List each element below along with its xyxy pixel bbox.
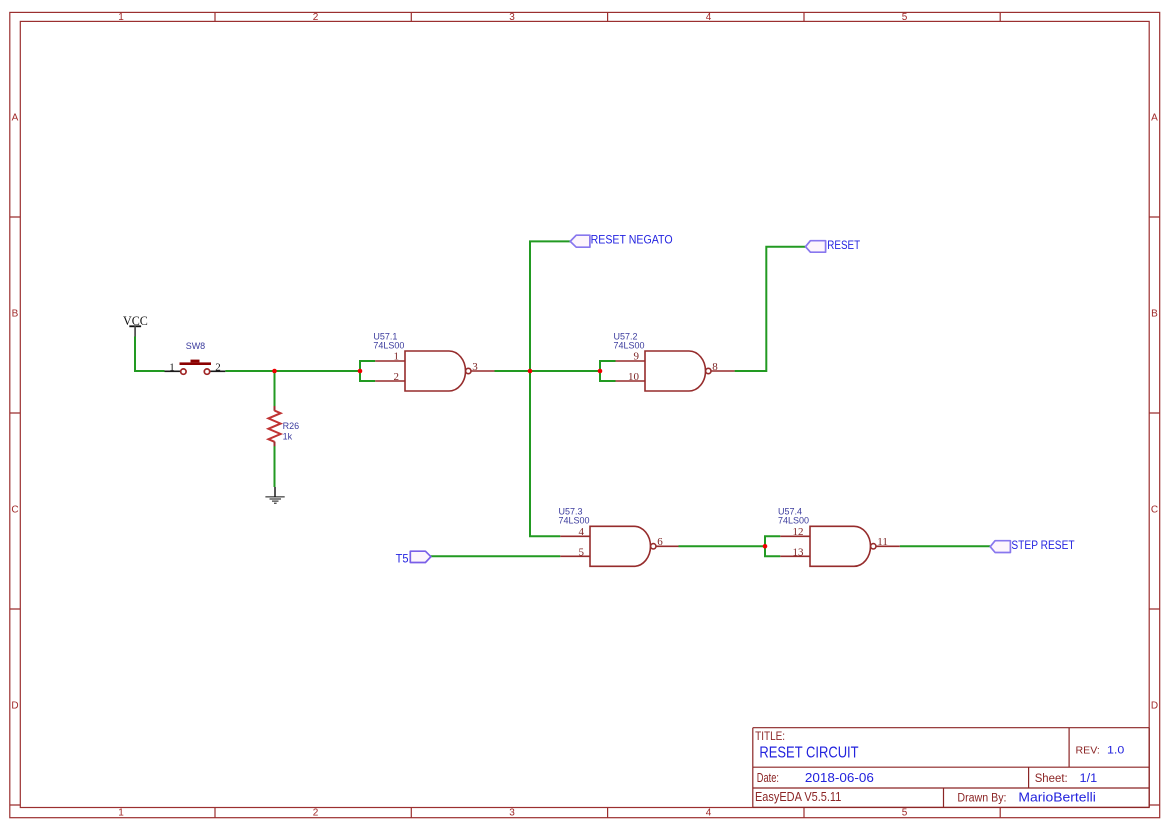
svg-text:MarioBertelli: MarioBertelli (1018, 790, 1095, 804)
frame row labels right (1151, 113, 1158, 712)
svg-text:Drawn By:: Drawn By: (957, 792, 1006, 804)
svg-text:REV:: REV: (1076, 745, 1100, 757)
op-amp U57.3 (NAND gate) (559, 506, 679, 566)
svg-text:4: 4 (579, 526, 585, 538)
pin 1 contact circle (181, 369, 186, 374)
frame column labels bottom (118, 808, 908, 819)
svg-text:5: 5 (902, 12, 908, 23)
svg-text:T5: T5 (396, 554, 409, 566)
svg-text:3: 3 (472, 361, 478, 373)
svg-text:RESET: RESET (827, 240, 860, 252)
svg-text:1k: 1k (283, 431, 293, 441)
wire trunk RESET NEGATO down to U57.3 pin4 (530, 241, 570, 536)
svg-text:5: 5 (579, 546, 585, 558)
title block (753, 728, 1149, 808)
svg-text:3: 3 (509, 808, 515, 819)
svg-text:B: B (1151, 309, 1158, 320)
wire switch pin2 to U57.1 inputs (node N1) (225, 370, 360, 372)
svg-text:10: 10 (628, 371, 640, 383)
svg-text:R26: R26 (283, 421, 300, 431)
pin 2 contact circle (204, 369, 209, 374)
svg-text:74LS00: 74LS00 (559, 515, 590, 525)
frame column ticks bottom (215, 808, 1000, 818)
svg-text:1.0: 1.0 (1107, 745, 1124, 757)
wire U57.2 input fork (600, 361, 616, 381)
op-amp U57.4 (NAND gate) (778, 506, 900, 566)
pin 2 lead (211, 370, 226, 372)
svg-text:2: 2 (313, 808, 319, 819)
net flag STEP RESET (990, 540, 1074, 553)
svg-text:74LS00: 74LS00 (373, 341, 404, 351)
op-amp U57.2 (NAND gate) (614, 331, 735, 391)
svg-text:C: C (1151, 505, 1158, 516)
svg-text:2: 2 (215, 362, 221, 374)
svg-text:74LS00: 74LS00 (614, 341, 645, 351)
svg-text:D: D (1151, 701, 1158, 712)
svg-text:11: 11 (877, 536, 888, 548)
net flag T5 (396, 551, 431, 565)
resistor R26 (268, 406, 299, 446)
svg-text:74LS00: 74LS00 (778, 515, 809, 525)
net flag RESET (806, 240, 861, 252)
junction dot U57.2 inputs (598, 369, 603, 374)
wire U57.3 output to U57.4 inputs (679, 545, 766, 547)
svg-text:STEP RESET: STEP RESET (1011, 540, 1074, 552)
junction dot U57.1 inputs (358, 369, 363, 374)
svg-text:9: 9 (634, 351, 640, 363)
junction dot trunk crossing (528, 369, 533, 374)
svg-text:B: B (12, 309, 19, 320)
wire U57.2 output up to RESET flag (735, 247, 806, 371)
pin 1 lead (165, 370, 181, 372)
op-amp U57.1 (NAND gate) (373, 331, 494, 391)
svg-text:5: 5 (902, 808, 908, 819)
actuator bar (180, 362, 212, 365)
svg-text:RESET CIRCUIT: RESET CIRCUIT (759, 745, 858, 762)
wire U57.4 input fork (765, 536, 780, 556)
svg-text:1/1: 1/1 (1080, 773, 1098, 785)
wire VCC stem to switch (135, 337, 165, 372)
svg-text:A: A (1151, 113, 1158, 124)
svg-text:2: 2 (313, 12, 319, 23)
frame column ticks top (215, 12, 1000, 21)
svg-text:C: C (11, 505, 18, 516)
svg-text:Date:: Date: (757, 771, 779, 785)
svg-text:3: 3 (509, 12, 515, 23)
svg-text:1: 1 (118, 808, 124, 819)
svg-text:6: 6 (657, 536, 663, 548)
svg-text:4: 4 (706, 12, 712, 23)
svg-text:4: 4 (706, 808, 712, 819)
frame row ticks right (1149, 217, 1160, 805)
wire branch down to R26 (274, 371, 276, 407)
svg-text:1: 1 (394, 351, 400, 363)
svg-text:8: 8 (712, 361, 718, 373)
svg-text:2018-06-06: 2018-06-06 (805, 771, 874, 785)
svg-text:SW8: SW8 (186, 341, 206, 351)
frame row labels left (11, 113, 18, 712)
switch SW8 (165, 341, 226, 374)
svg-text:D: D (11, 701, 18, 712)
svg-text:EasyEDA V5.5.11: EasyEDA V5.5.11 (755, 789, 841, 804)
ground (265, 487, 284, 503)
svg-text:13: 13 (793, 546, 805, 558)
wire U57.4 output to STEP RESET flag (900, 545, 990, 547)
svg-text:RESET NEGATO: RESET NEGATO (591, 234, 673, 246)
svg-text:Sheet:: Sheet: (1035, 773, 1068, 785)
svg-text:TITLE:: TITLE: (755, 731, 785, 743)
wire R26 to ground (274, 442, 276, 487)
wire U57.1 input fork (360, 361, 375, 381)
power flag VCC (123, 313, 148, 337)
svg-text:A: A (12, 113, 19, 124)
svg-text:1: 1 (169, 362, 175, 374)
wire U57.1 output to U57.2 inputs (495, 370, 601, 372)
frame column labels top (118, 12, 908, 23)
svg-text:2: 2 (394, 371, 400, 383)
svg-text:1: 1 (118, 12, 124, 23)
wire T5 to U57.3 pin5 (431, 555, 561, 557)
svg-text:12: 12 (793, 526, 804, 538)
net flag RESET NEGATO (570, 234, 672, 247)
frame row ticks left (10, 217, 20, 805)
junction dot U57.4 inputs (763, 544, 768, 549)
junction dot node at switch/R26 (272, 369, 277, 374)
